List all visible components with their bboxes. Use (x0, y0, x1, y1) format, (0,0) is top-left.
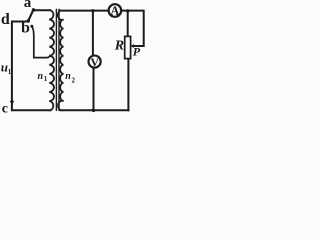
svg-text:d: d (1, 11, 10, 28)
svg-text:n: n (38, 71, 44, 82)
svg-text:P: P (133, 45, 141, 59)
svg-text:n: n (65, 71, 71, 82)
svg-text:b: b (21, 20, 30, 37)
svg-text:c: c (2, 101, 8, 116)
svg-text:A: A (110, 4, 119, 18)
svg-text:V: V (90, 55, 99, 69)
svg-text:1: 1 (44, 75, 48, 83)
svg-text:1: 1 (8, 68, 12, 76)
svg-text:a: a (24, 0, 32, 11)
svg-text:R: R (114, 38, 124, 53)
svg-text:2: 2 (72, 76, 76, 84)
